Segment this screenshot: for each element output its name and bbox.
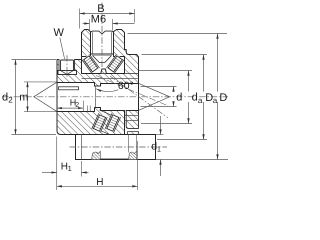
svg-text:m: m xyxy=(19,92,28,104)
svg-text:d: d xyxy=(176,92,182,104)
svg-text:D: D xyxy=(219,92,227,104)
dimension H2 xyxy=(82,101,84,112)
bolt break patch left xyxy=(92,151,101,159)
screw seat xyxy=(58,71,77,75)
svg-text:d: d xyxy=(2,92,8,104)
dimension d xyxy=(141,86,177,88)
main axis centerline xyxy=(2,96,228,98)
svg-text:60°: 60° xyxy=(118,80,134,92)
left face edge across bore xyxy=(56,83,58,112)
screw axis centerline xyxy=(66,55,68,77)
contact angle construction lines xyxy=(96,76,168,106)
svg-text:2: 2 xyxy=(75,102,79,109)
thread cone right xyxy=(139,84,170,111)
plug tip cone xyxy=(93,56,112,63)
fixing bolt xyxy=(76,135,156,160)
svg-text:1: 1 xyxy=(68,164,72,173)
nut body section, bottom half xyxy=(57,108,125,135)
dimension H1 xyxy=(56,137,58,191)
svg-text:M6: M6 xyxy=(91,13,106,25)
thread end edges xyxy=(95,86,97,96)
flange ring bottom half xyxy=(126,111,138,129)
nut body section, top half xyxy=(57,30,139,87)
plug axis centerline xyxy=(101,3,103,72)
roller top left xyxy=(82,54,100,73)
svg-text:a: a xyxy=(213,96,218,105)
flange lip strip above bolt xyxy=(128,132,139,135)
dimension da xyxy=(139,70,192,72)
set screw W xyxy=(58,60,60,71)
right face edge across bore xyxy=(138,84,140,111)
svg-text:W: W xyxy=(54,27,65,39)
dimension d2 xyxy=(12,59,57,61)
thread cone left xyxy=(34,82,57,112)
dimension M6 xyxy=(89,19,91,31)
thread zone rect top xyxy=(59,87,79,90)
angle 60 deg xyxy=(96,89,118,92)
dimension m xyxy=(24,81,57,83)
svg-text:H: H xyxy=(96,177,103,188)
svg-text:d: d xyxy=(192,92,198,104)
label W leader xyxy=(60,38,65,60)
dimension H xyxy=(137,141,139,190)
svg-text:a: a xyxy=(198,96,203,105)
svg-text:1: 1 xyxy=(157,144,161,153)
bolt axis centerline xyxy=(70,146,168,148)
roller channel bottom xyxy=(92,110,120,136)
roller bottom right xyxy=(105,113,120,132)
ring washer lines bottom xyxy=(125,115,139,117)
dimension D xyxy=(128,33,228,35)
roller bottom left xyxy=(92,113,107,132)
roller top right xyxy=(107,54,125,73)
svg-text:2: 2 xyxy=(8,96,13,105)
dimension d1 xyxy=(156,134,164,136)
dimension B xyxy=(79,9,81,29)
axial washer lines top xyxy=(82,73,139,75)
plug M6 xyxy=(91,31,114,54)
bolt break patch right xyxy=(129,151,137,159)
dimension Da xyxy=(142,54,208,56)
